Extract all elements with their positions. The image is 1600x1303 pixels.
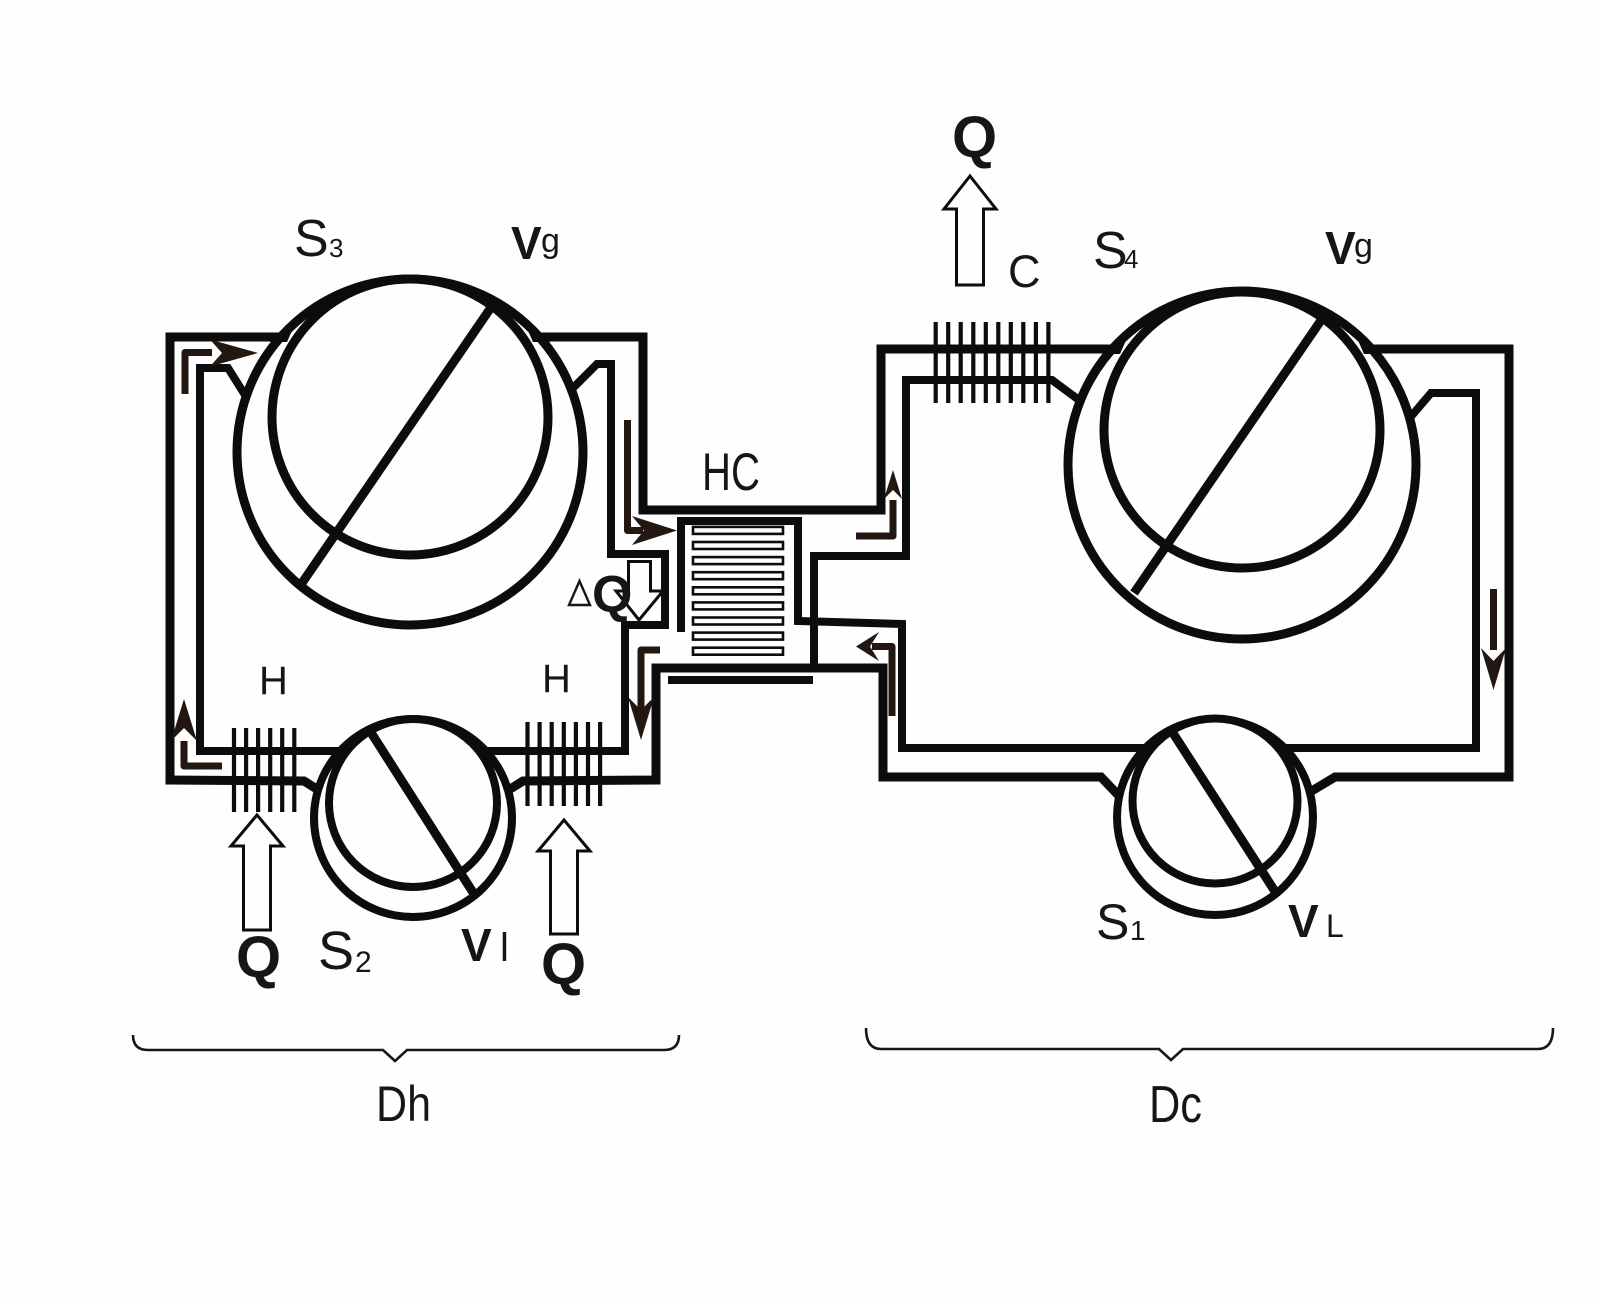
svg-text:V: V <box>461 919 492 971</box>
displacer S2 vane diagonal <box>370 731 474 894</box>
displacer S3 inner circle <box>272 279 548 555</box>
displacer unit S3 housing circle <box>237 279 583 625</box>
svg-text:g: g <box>1354 227 1373 265</box>
svg-text:S: S <box>294 210 329 268</box>
svg-text:S: S <box>318 921 354 981</box>
flow arrow right side of Dc (downward) <box>1481 589 1506 690</box>
heater H left hatch <box>234 728 294 812</box>
displacer S1 inner circle <box>1133 719 1298 884</box>
wire outer boundary (both loops + HC floor) <box>170 337 1509 798</box>
wire inner boundary of right loop Dc <box>681 380 1476 748</box>
svg-text:3: 3 <box>329 233 343 263</box>
svg-text:H: H <box>542 657 571 701</box>
displacer S4 inner circle <box>1104 292 1380 568</box>
heat flow Q arrow left (outline, up) <box>231 815 283 930</box>
displacer S1 vane diagonal <box>1171 730 1276 893</box>
svg-text:L: L <box>1326 908 1344 944</box>
wire inner boundary of left loop Dh <box>200 364 665 751</box>
flow arrow from HC up to right loop (right then up, arrowhead up) <box>856 470 902 536</box>
svg-text:V: V <box>1288 895 1319 947</box>
cooler C hatch <box>936 322 1049 403</box>
heat flow dQ arrow middle (outline, down) <box>616 562 663 621</box>
svg-text:4: 4 <box>1124 244 1138 274</box>
flow arrow into HC inlet (down then right) <box>628 420 678 545</box>
horn cusp S3 right <box>522 317 550 342</box>
displacer unit S4 housing circle <box>1068 291 1416 639</box>
heat flow Q arrow top right (outline, up) <box>944 176 996 285</box>
brace Dc <box>866 1028 1553 1060</box>
svg-text:2: 2 <box>355 946 372 979</box>
svg-text:H: H <box>259 659 288 703</box>
svg-text:HC: HC <box>702 443 760 502</box>
displacer S4 vane diagonal <box>1134 316 1324 593</box>
svg-text:g: g <box>541 222 560 260</box>
svg-text:S: S <box>1096 894 1129 950</box>
svg-text:Q: Q <box>952 105 997 170</box>
delta triangle of dQ label <box>569 581 590 605</box>
flow arrow into HC from right loop (up then left, arrowhead left) <box>856 632 892 716</box>
horn cusp S3 left <box>270 317 298 342</box>
horn cusp S4 right <box>1353 329 1381 354</box>
svg-text:C: C <box>1008 246 1041 297</box>
displacer unit S2 housing circle <box>314 719 512 917</box>
displacer S3 vane diagonal <box>302 306 492 583</box>
brace Dh <box>133 1035 679 1061</box>
flow arrow left-bottom (upward) <box>171 699 222 766</box>
heat exchanger HC under-shelf <box>668 676 813 684</box>
svg-text:l: l <box>500 926 509 970</box>
svg-text:Q: Q <box>541 932 586 997</box>
svg-text:Dc: Dc <box>1149 1076 1202 1134</box>
svg-text:S: S <box>1093 222 1128 280</box>
displacer S2 inner circle <box>329 719 497 887</box>
svg-text:V: V <box>1325 222 1356 274</box>
svg-text:1: 1 <box>1130 915 1146 946</box>
horn cusp S4 left <box>1103 329 1131 354</box>
flow arrow out of HC to left loop (left then down, arrowhead down) <box>628 650 660 740</box>
svg-text:V: V <box>511 217 542 269</box>
svg-text:Q: Q <box>236 925 281 990</box>
svg-text:Dh: Dh <box>376 1076 431 1132</box>
flow arrow top-left (rightward) <box>185 340 258 395</box>
heat exchanger HC plate stack <box>693 527 783 655</box>
heat flow Q arrow right of S2 (outline, up) <box>538 820 590 934</box>
heater H right hatch <box>528 722 601 806</box>
svg-text:Q: Q <box>592 566 632 624</box>
displacer unit S1 housing circle <box>1117 719 1313 915</box>
